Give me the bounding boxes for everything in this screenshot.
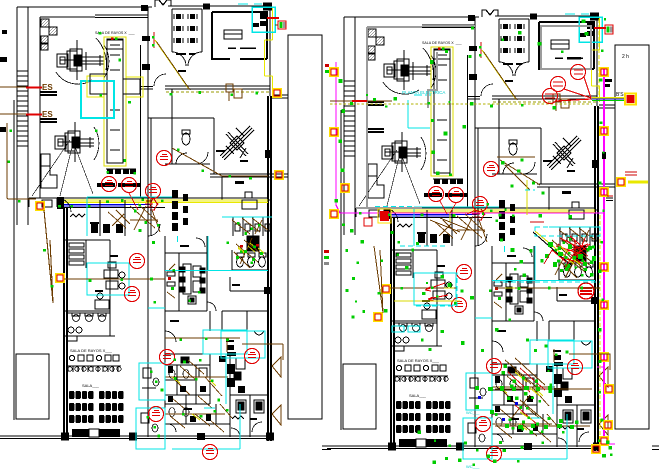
- feeder node: [330, 128, 338, 136]
- panel dashes: [606, 198, 613, 201]
- magenta stub: [597, 367, 615, 444]
- blue dots: [478, 396, 518, 421]
- keyed note circle: [484, 162, 499, 177]
- keyed note circle: [130, 254, 145, 269]
- node C: [273, 89, 281, 97]
- keyed note circle: [157, 151, 172, 166]
- magenta feeder left: [336, 62, 604, 213]
- right floor plan: [327, 10, 649, 459]
- svg-text:2 h: 2 h: [622, 54, 629, 60]
- keyed note circle: [149, 407, 164, 422]
- svg-text:ES: ES: [42, 83, 53, 92]
- node D: [275, 171, 283, 179]
- svg-text:PLANTA ELECTRICA: PLANTA ELECTRICA: [402, 90, 445, 95]
- red tap line: [267, 17, 279, 19]
- keyed note circle: [429, 187, 444, 202]
- green fill node: [605, 25, 613, 34]
- feeder node: [617, 178, 625, 186]
- yellow branch wires: [444, 246, 580, 420]
- keyed note circle: [160, 350, 175, 365]
- yellow riser 2: [526, 180, 528, 215]
- cyan partial box: [408, 95, 431, 128]
- big red service node: [625, 94, 636, 105]
- device dots: [335, 18, 613, 466]
- bath row color marks: [236, 244, 264, 261]
- big green blobs: [545, 242, 596, 268]
- feeder node: [600, 353, 608, 361]
- feeder node: [604, 421, 612, 429]
- edge ticks: [0, 30, 7, 132]
- small red node: [364, 218, 372, 226]
- branch wiring: [330, 101, 600, 426]
- keyed note circle: [457, 265, 472, 280]
- cyan small boxes: [392, 326, 404, 332]
- keyed note circle: [487, 447, 502, 462]
- corridor cross arms walls: [90, 74, 140, 94]
- dashed service line: [330, 103, 592, 105]
- yellow band to main: [592, 97, 626, 99]
- svg-text:WC___: WC___: [466, 410, 480, 415]
- keyed note circle: [102, 177, 117, 192]
- yellow riser: [599, 19, 600, 436]
- keyed note circle: [452, 298, 467, 313]
- scale mark: [322, 446, 331, 450]
- yellow seg office: [394, 300, 460, 302]
- ES feeder 1: [0, 86, 26, 88]
- red arrows: [425, 283, 448, 301]
- leader circles: [543, 65, 592, 104]
- device dots: [8, 32, 261, 437]
- feeder node: [605, 385, 613, 393]
- node B: [56, 274, 64, 282]
- keyed note circle: [568, 360, 583, 375]
- inter-plan marks: [324, 64, 329, 265]
- red underline marks: [530, 172, 637, 222]
- corridor cross arms yellow: [87, 76, 143, 97]
- yellow scribble: [628, 181, 648, 184]
- yellow riser band: [449, 213, 451, 222]
- diag feeder: [172, 148, 268, 176]
- keyed note circle: [146, 184, 161, 199]
- feeder node: [330, 68, 338, 76]
- keyed note circle: [487, 359, 502, 374]
- svg-text:ES: ES: [42, 110, 53, 119]
- keyed note circle: [122, 178, 137, 193]
- gray room outline: [541, 26, 591, 69]
- keyed note circle: [476, 417, 491, 432]
- brown riser: [7, 123, 36, 199]
- red tap line right: [594, 27, 606, 29]
- ES feeder 2: [0, 113, 26, 115]
- feeder east exit: [554, 349, 610, 370]
- feeder node: [600, 68, 608, 76]
- wire green rows: [475, 386, 574, 429]
- feeder node: [600, 127, 608, 135]
- feeder across: [64, 278, 165, 280]
- keyed note circle: [125, 287, 140, 302]
- gray corridor jog: [428, 52, 437, 108]
- feeder node: [600, 188, 608, 196]
- red net bath: [552, 236, 590, 264]
- left floor plan: [0, 0, 322, 449]
- black bar: [602, 152, 606, 159]
- red fill circle: [578, 283, 594, 299]
- feeder node: [600, 437, 608, 445]
- cyan box suite: [81, 81, 114, 118]
- keyed note circle: [473, 197, 488, 212]
- brown tick: [275, 24, 278, 26]
- meter marks: [567, 57, 612, 87]
- node A: [36, 202, 44, 210]
- feeder node: [600, 263, 608, 271]
- keyed note circle: [449, 188, 464, 203]
- gray suite outline: [356, 26, 475, 208]
- cyan dashed boxes: [375, 190, 600, 306]
- magenta feeder right: [603, 69, 605, 436]
- feeder node: [330, 210, 338, 218]
- brown V drop: [44, 210, 53, 303]
- red box top: [278, 21, 286, 29]
- feeder node: [382, 285, 390, 293]
- keyed note circle: [245, 349, 260, 364]
- red branch wires: [508, 240, 588, 425]
- conduit diagonal: [533, 232, 572, 266]
- leader lines: [129, 193, 153, 210]
- leaders: [440, 201, 476, 214]
- feeder node: [592, 445, 600, 453]
- feeder node: [374, 313, 382, 321]
- keyed note circle: [203, 445, 218, 460]
- feeder node: [341, 184, 349, 192]
- svg-text:B'S: B'S: [616, 92, 624, 98]
- feeder node: [600, 301, 608, 309]
- scale mark right: [652, 446, 659, 450]
- red feeder segment: [352, 100, 367, 102]
- feeder lower: [165, 338, 283, 360]
- red filled node: [380, 211, 389, 221]
